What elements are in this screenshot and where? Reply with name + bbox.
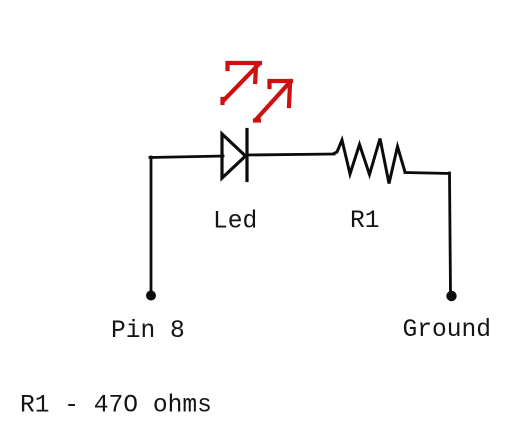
wire LED cathode to resistor [247,154,334,155]
led Led (diode triangle and cathode bar) [222,130,247,181]
resistor R1 (zigzag) [334,139,405,184]
label Pin 8 [111,318,185,345]
svg-text:Ground: Ground [403,317,492,344]
label Ground [403,317,492,344]
svg-text:Pin 8: Pin 8 [111,318,185,345]
node Pin 8 terminal dot [146,291,156,301]
LED light emission arrow 2 [255,81,291,121]
wire left horizontal (corner to LED anode) [150,156,223,158]
label Led [213,209,257,236]
value label R1 - 470 ohms [20,393,212,420]
label R1 [350,208,380,235]
wire left vertical (Pin 8 to corner) [150,157,153,294]
wire resistor to right vertical [405,173,449,174]
svg-text:R1: R1 [350,208,380,235]
wire right vertical (to Ground) [450,173,451,293]
svg-text:R1 - 47O ohms: R1 - 47O ohms [20,393,212,420]
svg-text:Led: Led [213,209,257,236]
node Ground terminal dot [446,291,456,301]
LED light emission arrow 1 [223,63,261,103]
